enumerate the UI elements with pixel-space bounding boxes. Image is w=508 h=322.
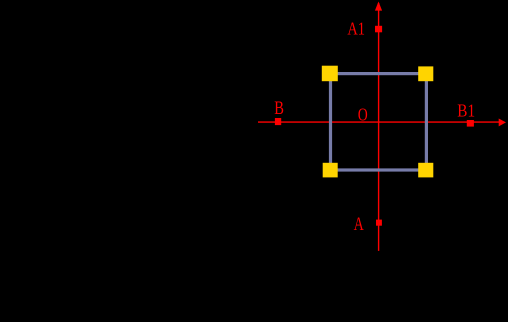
svg-text:B: B [274, 99, 284, 119]
svg-text:A: A [354, 215, 365, 235]
svg-text:A1: A1 [347, 19, 365, 39]
svg-text:B1: B1 [457, 101, 475, 121]
point marker A (red square on y-axis) [376, 220, 382, 226]
point marker B1 (red square on x-axis) [467, 120, 474, 127]
svg-text:O: O [358, 105, 368, 125]
point marker B (red square on x-axis) [275, 118, 281, 125]
x-axis arrowhead [499, 119, 506, 127]
y-axis arrowhead [375, 2, 382, 11]
vertex handle bottom-right (yellow square) [418, 163, 433, 178]
vertex handle top-left (yellow square) [322, 66, 338, 82]
vertex handle bottom-left (yellow square) [323, 163, 338, 178]
square outline (slate edges) [331, 74, 427, 170]
x-axis (horizontal red line) [258, 121, 504, 123]
point marker A1 (red square on y-axis) [375, 26, 382, 33]
vertex handle top-right (yellow square) [418, 66, 433, 81]
y-axis (vertical red line) [378, 3, 380, 251]
